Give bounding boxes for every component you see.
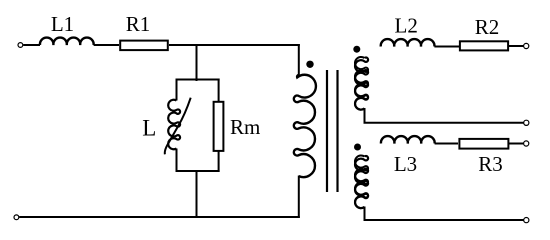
svg-text:Rm: Rm <box>230 115 260 139</box>
wire junction down <box>196 45 198 81</box>
transformer secondary winding 2 <box>355 156 368 208</box>
wire <box>23 44 40 46</box>
transformer primary winding <box>294 75 316 177</box>
svg-text:L: L <box>142 115 156 140</box>
wire top to primary <box>169 44 300 46</box>
wire secondary2 bottom <box>365 207 524 221</box>
polarity dot secondary 2 <box>354 144 361 151</box>
arrow through L <box>165 98 191 155</box>
wire secondary1 bottom <box>365 108 524 123</box>
svg-text:L1: L1 <box>51 12 74 36</box>
transformer core line 1 <box>326 70 328 192</box>
wire middle down to bottom rail <box>196 171 198 217</box>
svg-text:R1: R1 <box>126 12 151 36</box>
wire secondary1 top corner <box>355 57 368 110</box>
resistor Rm <box>214 102 224 151</box>
inductor L (saturable) <box>168 100 180 150</box>
wire top bar of parallel branch <box>176 79 220 81</box>
wire left branch lower <box>176 149 178 173</box>
inductor L1 <box>40 38 94 45</box>
inductor L3 <box>381 136 435 143</box>
transformer secondary winding 1 <box>355 58 368 110</box>
resistor R2 <box>460 41 508 50</box>
wire right branch lower <box>218 150 220 172</box>
wire left branch upper <box>176 79 178 101</box>
polarity dot secondary 1 <box>353 46 360 53</box>
wire <box>434 46 459 48</box>
wire secondary2 top corner <box>355 155 368 208</box>
inductor L2 <box>381 39 435 46</box>
terminal secondary1 bottom <box>524 120 529 125</box>
wire right branch upper <box>218 79 220 104</box>
terminal input top-left <box>18 43 23 48</box>
svg-text:L3: L3 <box>394 152 417 176</box>
resistor R1 <box>120 41 168 51</box>
wire primary bottom <box>298 176 300 219</box>
svg-text:L2: L2 <box>395 14 418 38</box>
terminal secondary2 top <box>524 141 529 146</box>
terminal secondary1 top <box>524 43 529 48</box>
wire <box>435 143 458 145</box>
wire <box>94 44 119 46</box>
terminal secondary2 bottom <box>524 218 529 223</box>
resistor R3 <box>459 139 508 149</box>
wire <box>509 143 523 145</box>
terminal input bottom-left <box>14 215 19 220</box>
wire bottom bar of parallel branch <box>176 170 220 172</box>
polarity dot primary <box>306 61 313 68</box>
wire primary top corner down <box>298 44 300 76</box>
svg-text:R3: R3 <box>478 152 503 176</box>
svg-text:R2: R2 <box>475 15 500 39</box>
wire <box>509 45 523 47</box>
wire bottom rail <box>19 216 300 218</box>
transformer core line 2 <box>336 70 338 192</box>
